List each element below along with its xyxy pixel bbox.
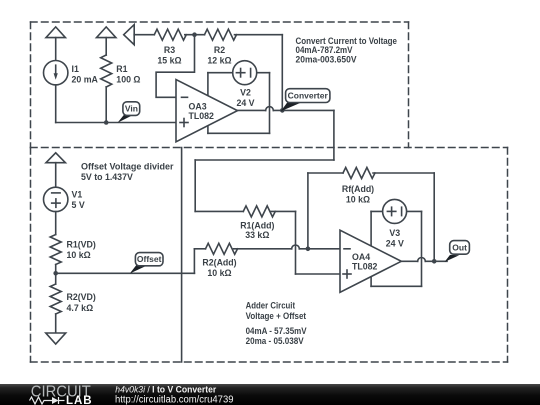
wire [194,160,196,211]
svg-text:Rf(Add): Rf(Add) [342,184,374,194]
label R1 100 Ω [116,64,140,85]
wire [134,34,154,36]
svg-text:TL082: TL082 [189,111,215,121]
svg-text:R2(Add): R2(Add) [202,258,236,268]
voltage source V2 [233,61,257,85]
wire (feedback Rf loop) [307,173,309,249]
wire [295,211,297,274]
label R1(Add) 33 kΩ [240,220,274,239]
svg-text:R3: R3 [164,45,175,55]
svg-text:I1: I1 [72,64,79,74]
wire [271,210,295,212]
resistor Rf(Add) [343,168,375,179]
wire (feedback from R3/R2 node to inverting input) [156,35,194,98]
svg-text:Offset Voltage divider: Offset Voltage divider [81,162,174,172]
section divider (overlapping box edges, solid) [181,148,183,363]
label R2(VD) 4.7 kΩ [67,292,96,313]
svg-text:100 Ω: 100 Ω [116,75,140,85]
svg-text:24 V: 24 V [386,239,404,249]
wire [55,314,57,333]
junction (Rf / R2(Add) node) [306,247,311,252]
svg-text:Adder Circuit: Adder Circuit [246,301,296,311]
svg-text:10 kΩ: 10 kΩ [346,195,370,205]
svg-text:4.7 kΩ: 4.7 kΩ [67,303,94,313]
wire [281,35,283,111]
label V3 24 V [386,228,404,249]
svg-text:V2: V2 [240,88,251,98]
resistor R1 [101,55,112,87]
wire [193,249,195,273]
wire [55,38,57,62]
resistor R2(Add) [206,243,238,254]
label R1(VD) 10 kΩ [67,240,96,261]
label R2 12 kΩ [207,45,231,65]
wire [373,172,434,174]
wire (to inverting input with hop) [234,245,341,249]
svg-text:5V to 1.437V: 5V to 1.437V [81,172,133,182]
annotation: Adder Circuit [246,301,307,346]
junction (Offset node) [53,271,58,276]
wire [105,38,107,55]
label I1 20 mA [72,64,99,85]
wire (V2 supply loop) [208,73,270,134]
svg-text:Voltage + Offset: Voltage + Offset [246,311,307,321]
net flag arrow above V1 [46,153,65,163]
wire [185,34,205,36]
svg-text:20ma - 05.038V: 20ma - 05.038V [246,336,304,346]
svg-text:Out: Out [452,243,467,253]
svg-text:12 kΩ: 12 kΩ [207,55,231,65]
junction (Out node) [432,259,437,264]
junction (R3/R2 node) [192,32,197,37]
svg-text:Offset: Offset [137,254,162,264]
svg-text:33 kΩ: 33 kΩ [245,230,269,240]
wire (bottom rail to op-amp + input) [56,122,177,124]
svg-text:10 kΩ: 10 kΩ [207,268,231,278]
node flag Offset [130,253,163,274]
svg-text:R1: R1 [116,64,127,74]
wire (offset rail) [56,272,195,274]
net flag arrow above R1 [97,27,116,38]
net flag arrow (left) at R3 [124,25,135,45]
label R2(Add) 10 kΩ [202,258,236,279]
wire [55,85,57,123]
label V2 24 V [236,88,254,109]
wire [194,248,205,250]
svg-text:OA3: OA3 [189,102,207,112]
svg-text:R2(VD): R2(VD) [67,292,96,302]
svg-text:R2: R2 [214,45,225,55]
svg-text:20ma-003.650V: 20ma-003.650V [296,54,357,64]
resistor R1(Add) [243,206,275,217]
wire [105,87,107,123]
logo CIRCUIT LAB [30,383,92,405]
current source I1 [44,60,68,84]
wire [296,273,341,275]
op-amp OA4 [340,230,401,292]
svg-text:V3: V3 [389,228,400,238]
svg-text:R1(VD): R1(VD) [67,240,96,250]
svg-text:h4v0k3i / I to V Converter: h4v0k3i / I to V Converter [115,384,216,394]
svg-text:http://circuitlab.com/cru4739: http://circuitlab.com/cru4739 [115,394,234,405]
svg-text:10 kΩ: 10 kΩ [67,250,91,260]
resistor R1(VD) [50,235,61,265]
svg-text:Vin: Vin [125,103,138,113]
label R3 15 kΩ [157,45,181,65]
svg-text:24 V: 24 V [236,98,254,108]
footer title [115,384,234,405]
junction (Converter node) [280,108,285,113]
svg-text:Converter: Converter [288,91,329,101]
junction (R1 / bottom rail) [104,120,109,125]
label OA4 TL082 [352,252,378,272]
svg-text:20 mA: 20 mA [72,75,99,85]
node flag Out [445,241,470,262]
op-amp OA3 [176,80,238,142]
section box: Offset Voltage divider (dashed) [31,148,508,363]
voltage source V1 [44,187,68,211]
resistor R2 [205,29,237,40]
section box: Convert Current to Voltage (dashed) [31,22,508,148]
node flag Vin [118,102,140,123]
resistor R3 [154,29,186,40]
wire [433,173,435,261]
wire (OA4 output with hop over V3 loop) [401,258,447,262]
annotation: Offset Voltage divider [81,162,174,183]
svg-text:TL082: TL082 [352,262,378,272]
wire [195,159,334,161]
wire [235,34,283,36]
wire (OA3 output with hop over V2 loop) [238,107,334,111]
svg-text:OA4: OA4 [352,252,370,262]
wire (V3 supply loop) [371,211,421,286]
label V1 5 V [72,190,85,211]
svg-text:V1: V1 [72,190,83,200]
resistor R2(VD) [50,284,61,314]
label Rf(Add) 10 kΩ [342,184,374,205]
net flag arrow above I1 [46,27,65,38]
label OA3 TL082 [189,102,215,122]
wire [55,163,57,188]
svg-text:5 V: 5 V [72,200,85,210]
section box: Adder (dashed right edge) [507,148,509,363]
svg-text:04mA - 57.35mV: 04mA - 57.35mV [246,326,307,336]
annotation: Convert Current to Voltage [296,36,398,65]
voltage source V3 [383,199,407,223]
wire [55,265,57,285]
svg-text:15 kΩ: 15 kΩ [157,55,181,65]
wire [55,212,57,235]
svg-text:LAB: LAB [66,395,92,405]
wire [195,210,243,212]
ground [46,333,66,344]
wire [333,110,335,160]
node flag Converter [281,89,330,112]
wire [308,172,343,174]
